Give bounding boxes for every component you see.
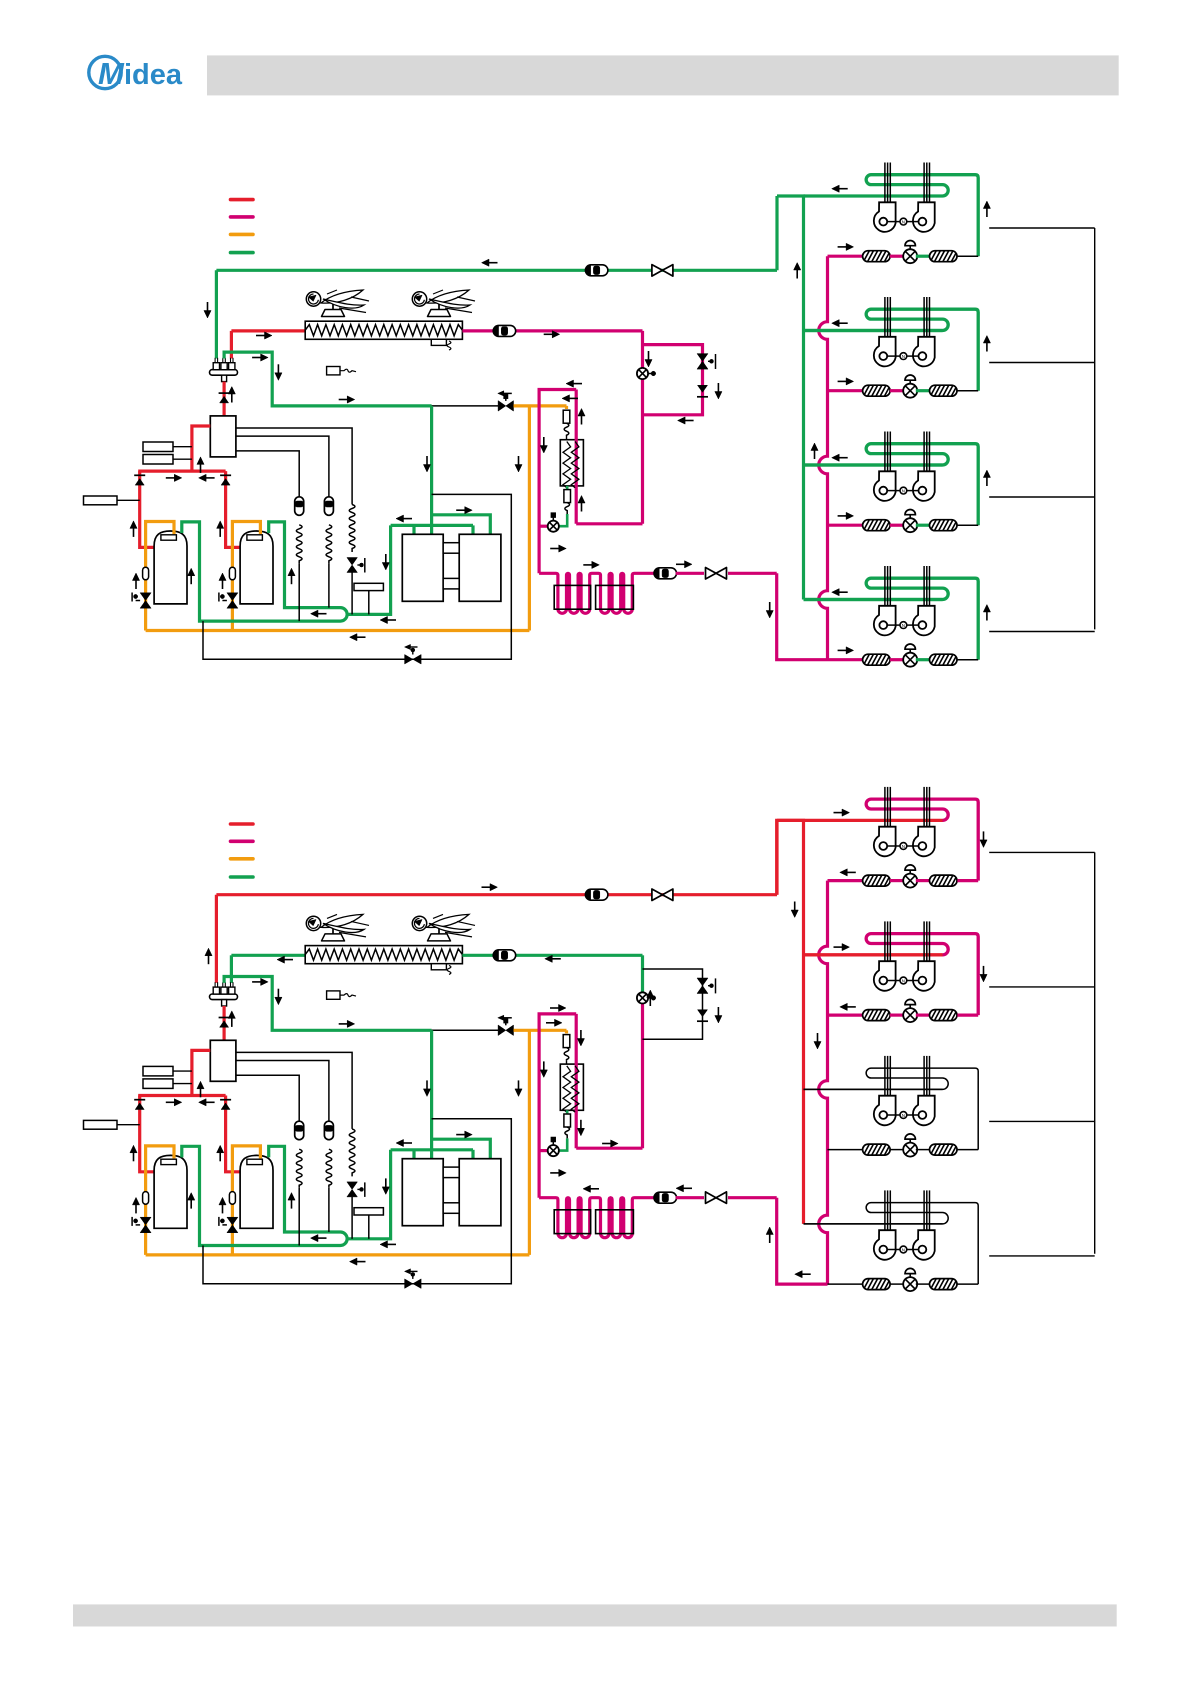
- svg-text:N: N: [902, 354, 905, 359]
- svg-text:N: N: [902, 844, 905, 849]
- svg-text:N: N: [902, 488, 905, 493]
- svg-text:idea: idea: [124, 59, 183, 91]
- svg-text:N: N: [902, 1113, 905, 1118]
- svg-text:M: M: [98, 56, 125, 91]
- svg-text:N: N: [902, 623, 905, 628]
- svg-text:N: N: [902, 1247, 905, 1252]
- svg-text:N: N: [902, 219, 905, 224]
- svg-text:N: N: [902, 978, 905, 983]
